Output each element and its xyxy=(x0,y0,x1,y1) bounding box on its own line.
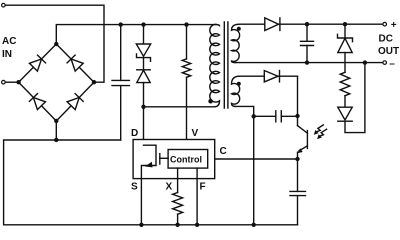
transformer T1 primary winding xyxy=(210,24,220,107)
capacitor C4 (control bypass) xyxy=(290,159,306,225)
bridge diode lower-right xyxy=(67,94,83,110)
clamp diode D5 (cathode up) xyxy=(137,58,150,107)
wire: secondary bottom minus line xyxy=(235,62,385,64)
bridge diode upper-right xyxy=(67,55,83,71)
svg-text:X: X xyxy=(166,182,173,193)
AC input terminal top xyxy=(2,3,6,7)
svg-text:V: V xyxy=(192,128,199,139)
node: bridge left vertex xyxy=(16,80,20,84)
wire: DC bus from bridge top to transformer primary xyxy=(56,25,215,44)
svg-text:F: F xyxy=(200,182,206,193)
node S-rail xyxy=(139,223,143,227)
transformer core xyxy=(224,22,228,108)
optocoupler LED xyxy=(338,63,365,133)
secondary phase dot xyxy=(237,27,241,31)
svg-text:–: – xyxy=(389,58,395,69)
svg-text:DC: DC xyxy=(379,33,393,44)
primary phase dot xyxy=(208,99,213,104)
LED light arrows xyxy=(314,125,324,135)
bridge diode lower-left xyxy=(29,94,45,110)
node: bridge bottom vertex xyxy=(54,119,58,123)
node F-rail xyxy=(195,223,199,227)
node bias-rail xyxy=(252,223,256,227)
svg-text:Control: Control xyxy=(170,155,202,165)
wire: S pin to rail xyxy=(140,179,142,225)
svg-text:AC: AC xyxy=(2,36,16,47)
wire: bias diode line xyxy=(240,75,298,77)
svg-text:D: D xyxy=(131,128,138,139)
node +line zener xyxy=(343,22,347,26)
wire: minus return, left drop and bottom rail xyxy=(4,140,298,225)
node -line C2 xyxy=(305,60,309,64)
transformer bias winding xyxy=(232,76,240,106)
wire: drain node to primary bottom xyxy=(144,106,215,108)
node: bridge top vertex xyxy=(54,42,58,46)
node collector xyxy=(295,114,299,118)
wire: C pin to emitter node xyxy=(215,158,298,160)
output diode D1 xyxy=(265,18,280,31)
node: bridge right vertex xyxy=(92,80,96,84)
wire: bottom AC terminal to bridge left vertex xyxy=(5,81,18,83)
capacitor C2 (output) xyxy=(301,24,314,62)
node bus-C1 xyxy=(119,22,123,26)
clamp zener VR1 (cathode down) xyxy=(136,25,150,62)
wire: bridge bottom to minus wire xyxy=(55,121,57,140)
node bias return / C3 xyxy=(252,114,256,118)
transformer secondary winding xyxy=(232,24,240,62)
node emitter / C pin wire xyxy=(295,157,299,161)
capacitor C1 (bulk filter) xyxy=(112,25,129,140)
node on minus wire xyxy=(54,138,58,142)
IC U1 outline xyxy=(133,140,215,179)
capacitor C3 (series feedback) xyxy=(254,111,298,122)
node bus-R1 xyxy=(184,22,188,26)
DC output + terminal xyxy=(383,22,387,26)
resistor R2 (X pin) xyxy=(173,168,183,225)
resistor R3 (feedback) xyxy=(340,72,350,95)
svg-text:OUT: OUT xyxy=(378,46,399,57)
wire: top AC line to bridge right vertex xyxy=(5,5,104,82)
resistor R1 (line sense, bus to V pin) xyxy=(182,25,190,150)
bridge rectifier BR1 frame xyxy=(19,44,94,121)
optocoupler phototransistor Q1 xyxy=(297,116,307,159)
svg-text:IN: IN xyxy=(2,49,12,60)
wire: bias diode down to collector node xyxy=(297,76,299,116)
svg-text:+: + xyxy=(391,20,397,31)
node: drain / clamp junction xyxy=(141,105,145,109)
wire: F pin to rail xyxy=(196,168,198,225)
wire: secondary top to + output xyxy=(240,23,385,25)
AC input terminal bottom xyxy=(2,80,6,84)
bias diode D2 xyxy=(264,71,279,82)
U1 internal MOSFET xyxy=(141,145,168,178)
svg-text:S: S xyxy=(131,182,138,193)
zener VR2 (feedback, cathode up) xyxy=(338,24,353,72)
bridge diode upper-left xyxy=(29,55,45,71)
node bus-clamp xyxy=(141,22,145,26)
bias phase dot xyxy=(237,82,241,86)
DC output - terminal xyxy=(383,61,387,65)
wire: bias winding return xyxy=(235,106,254,224)
node +line C2 xyxy=(305,22,309,26)
node -line LED return xyxy=(363,60,367,64)
node X-rail xyxy=(175,223,179,227)
wire: drain node down to D pin xyxy=(143,107,145,145)
U1 Control box xyxy=(168,150,208,169)
svg-text:C: C xyxy=(220,146,227,157)
